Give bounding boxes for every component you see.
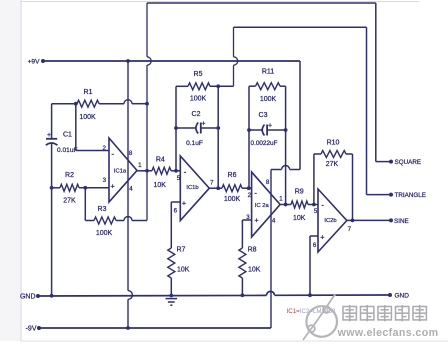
svg-text:10K: 10K bbox=[153, 182, 166, 189]
svg-text:R7: R7 bbox=[177, 247, 186, 254]
svg-text:-: - bbox=[184, 167, 187, 176]
triangle-wave net: IC1b output up and across top to TRIANGLE terminal bbox=[234, 27, 427, 199]
GND rail bbox=[20, 291, 409, 300]
wire hop over +9V at x=147 bbox=[147, 3, 421, 166]
resistor R8 10K (IC2a pin3 to GND) bbox=[239, 220, 261, 295]
svg-text:0.0022uF: 0.0022uF bbox=[250, 140, 277, 147]
svg-text:1: 1 bbox=[279, 196, 283, 203]
svg-text:R4: R4 bbox=[156, 157, 165, 164]
wire R5/C2 right edge down to IC1b output bbox=[217, 86, 219, 188]
svg-text:+: + bbox=[320, 232, 325, 241]
svg-text:SQUARE: SQUARE bbox=[395, 159, 422, 166]
svg-text:-: - bbox=[321, 201, 324, 210]
svg-text:-: - bbox=[254, 189, 257, 198]
svg-text:R8: R8 bbox=[248, 247, 257, 254]
svg-text:10K: 10K bbox=[177, 267, 190, 274]
svg-text:-9V: -9V bbox=[26, 326, 37, 333]
svg-text:R10: R10 bbox=[327, 140, 340, 147]
SINE output wire bbox=[347, 218, 409, 225]
svg-text:R1: R1 bbox=[84, 89, 93, 96]
-9V rail bbox=[26, 326, 271, 333]
watermark url text bbox=[337, 327, 439, 339]
svg-text:SINE: SINE bbox=[394, 218, 409, 225]
svg-text:100K: 100K bbox=[224, 196, 241, 203]
svg-text:GND: GND bbox=[395, 293, 410, 300]
watermark logo circle bbox=[303, 295, 337, 341]
IC1b output node / resistor R6 100K bbox=[209, 172, 251, 203]
svg-text:27K: 27K bbox=[326, 161, 339, 168]
svg-text:27K: 27K bbox=[63, 198, 76, 205]
resistor R2 27K (pin3 to ground) bbox=[50, 172, 109, 205]
svg-text:+: + bbox=[254, 216, 259, 225]
wire C1 bottom / R2 node down to GND bbox=[51, 188, 53, 296]
svg-text:R6: R6 bbox=[228, 172, 237, 179]
svg-text:IC1b: IC1b bbox=[186, 185, 198, 191]
svg-text:+: + bbox=[202, 121, 206, 128]
svg-text:100K: 100K bbox=[260, 96, 277, 103]
resistor R5 100K (IC1b feedback) bbox=[176, 71, 234, 103]
op-amp IC1b bbox=[174, 156, 215, 221]
ground symbol at R7 bbox=[166, 299, 178, 306]
op-amp IC1a bbox=[102, 138, 142, 202]
IC1a power line pin8/pin4 (+9V to -9V vertical) bbox=[128, 61, 132, 328]
svg-text:6: 6 bbox=[174, 207, 178, 214]
resistor R4 10K (to integrator IC1b) bbox=[152, 157, 180, 190]
svg-text:0.1uF: 0.1uF bbox=[186, 140, 203, 147]
IC1a output wire / node bbox=[137, 169, 152, 173]
resistor R7 10K (IC1b pin6 to GND) bbox=[168, 202, 190, 296]
op-amp IC2a bbox=[246, 172, 283, 237]
svg-text:R3: R3 bbox=[98, 206, 107, 213]
svg-text:C2: C2 bbox=[192, 111, 201, 118]
svg-text:10K: 10K bbox=[248, 267, 261, 274]
svg-text:6: 6 bbox=[313, 242, 317, 249]
svg-text:100K: 100K bbox=[79, 114, 96, 121]
IC2b pin6 to GND wire bbox=[310, 236, 318, 295]
svg-text:100K: 100K bbox=[190, 96, 207, 103]
svg-text:+9V: +9V bbox=[28, 58, 41, 65]
svg-text:R11: R11 bbox=[262, 69, 274, 76]
IC2a power line pin8/pin4 bbox=[270, 170, 273, 329]
svg-text:7: 7 bbox=[210, 180, 214, 187]
svg-text:2: 2 bbox=[248, 192, 252, 199]
wire R5/C2 left edge down to pin5 node bbox=[175, 86, 177, 171]
svg-text:8: 8 bbox=[129, 150, 133, 157]
resistor R3 100K (positive feedback pin3 to output) bbox=[85, 188, 147, 237]
svg-text:C1: C1 bbox=[63, 132, 72, 139]
svg-text:4: 4 bbox=[272, 218, 276, 225]
svg-text:3: 3 bbox=[103, 177, 107, 184]
svg-text:C3: C3 bbox=[259, 112, 268, 119]
wire R11/C3 right edge down to IC2a output bbox=[285, 86, 287, 204]
svg-text:7: 7 bbox=[348, 226, 352, 233]
svg-text:0.01uF: 0.01uF bbox=[57, 147, 78, 154]
note IC1=IC2 red text bbox=[287, 308, 336, 315]
svg-text:8: 8 bbox=[266, 179, 270, 186]
+9V rail bbox=[28, 58, 300, 65]
svg-text:IC1a: IC1a bbox=[114, 169, 127, 175]
svg-text:IC2b: IC2b bbox=[324, 218, 336, 224]
svg-text:IC 2a: IC 2a bbox=[255, 203, 270, 209]
svg-text:+: + bbox=[47, 132, 51, 139]
capacitor C2 0.1uF bbox=[174, 111, 220, 147]
square-wave net: IC1a output up and across top to SQUARE terminal bbox=[146, 65, 148, 221]
resistor R10 27K (IC2b feedback) bbox=[314, 140, 353, 221]
capacitor C1 0.01uF (polarized) bbox=[46, 132, 78, 188]
svg-text:+: + bbox=[268, 123, 272, 130]
svg-text:-: - bbox=[111, 150, 114, 159]
watermark chinese text 电子发烧友 (block glyphs) bbox=[343, 305, 426, 321]
op-amp IC2b bbox=[313, 189, 352, 252]
svg-text:GND: GND bbox=[20, 294, 36, 301]
wire pin2 node vertical bbox=[52, 104, 109, 151]
svg-text:www.elecfans.com: www.elecfans.com bbox=[337, 327, 439, 339]
svg-text:R2: R2 bbox=[65, 172, 74, 179]
wire R11/C3 left edge down to pin2 node bbox=[248, 86, 250, 188]
svg-text:4: 4 bbox=[129, 186, 133, 193]
capacitor C3 0.0022uF bbox=[247, 112, 287, 147]
IC2a output node / resistor R9 10K bbox=[280, 189, 318, 222]
svg-text:+: + bbox=[111, 182, 116, 191]
resistor R11 100K (IC2a feedback) bbox=[249, 69, 286, 104]
svg-text:1: 1 bbox=[138, 162, 142, 169]
resistor R1 100K (feedback, pin2 to output net) bbox=[52, 89, 149, 121]
svg-text:100K: 100K bbox=[96, 230, 113, 237]
svg-text:10K: 10K bbox=[293, 215, 306, 222]
svg-text:TRIANGLE: TRIANGLE bbox=[395, 192, 427, 199]
svg-text:R9: R9 bbox=[295, 189, 304, 196]
+9V corner down to IC2 pin8 branch bbox=[271, 61, 300, 170]
svg-text:5: 5 bbox=[314, 208, 318, 215]
svg-text:5: 5 bbox=[177, 175, 181, 182]
svg-text:+: + bbox=[182, 198, 187, 207]
svg-text:R5: R5 bbox=[194, 71, 203, 78]
